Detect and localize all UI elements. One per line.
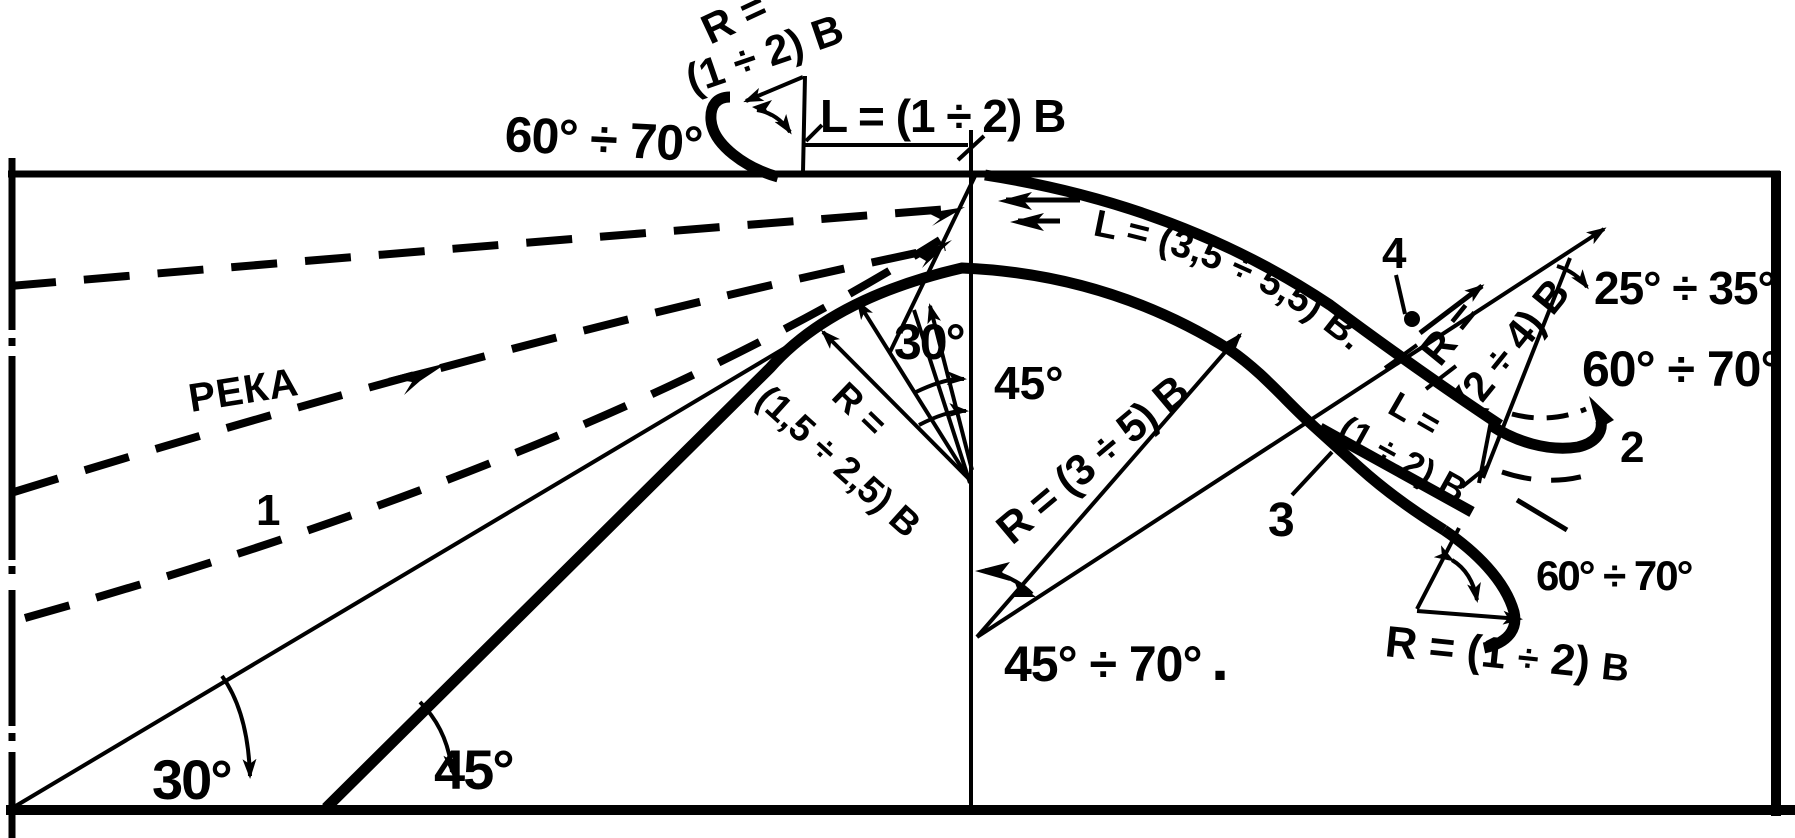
small arrowhead at angle arc start (top triangle) xyxy=(752,100,772,117)
vertex angle arc arrowhead at vertical xyxy=(975,562,1010,581)
steep thin line of 25-35 wedge xyxy=(1483,258,1570,478)
svg-text:L = (1 ÷ 2) В: L = (1 ÷ 2) В xyxy=(820,90,1065,142)
radius arrow 3 of crest curve xyxy=(930,306,972,470)
svg-text:30°: 30° xyxy=(152,748,231,811)
left arrowhead of lower leader dash xyxy=(1010,213,1044,231)
radius arrow 2 of crest curve xyxy=(858,302,970,481)
bottom hook angle arc xyxy=(1452,560,1477,600)
left arrowhead of upper leader dash xyxy=(998,192,1032,210)
angle arc for 30 deg bottom left xyxy=(222,676,250,776)
svg-text:45°: 45° xyxy=(434,738,513,801)
left axis dot 1 xyxy=(9,338,16,346)
vertex angle arc small arrowhead at R1 crossing xyxy=(1010,580,1036,597)
flow line C (lower dashed streamline) xyxy=(25,240,940,618)
leader dash with left arrow (lower, right of vertical) xyxy=(1018,219,1060,224)
thin steep construction line at top center xyxy=(890,172,977,352)
band end slash tick 2 xyxy=(1426,366,1456,389)
flowlines group xyxy=(10,192,1080,618)
dike 4 head hook (center right) xyxy=(1492,421,1601,448)
leader line of label 4 xyxy=(1396,275,1405,314)
leader dot of label 4 xyxy=(1404,311,1420,327)
curved angle arrow lower (45 deg) xyxy=(919,411,966,425)
radius line R2 long diagonal xyxy=(977,229,1604,637)
short flow arrow over band gap xyxy=(1420,286,1482,333)
svg-text:4: 4 xyxy=(1382,229,1407,278)
band lower edge arc (L band right) xyxy=(1320,428,1472,512)
L dimension line at top xyxy=(802,143,968,147)
svg-text:1: 1 xyxy=(256,486,280,535)
leader line of label 3 xyxy=(1292,452,1332,495)
angle arc for 45 deg bottom xyxy=(420,702,452,772)
angle arc at lower vertex xyxy=(985,570,1032,594)
vertical construction line xyxy=(969,130,973,808)
bottom hook wedge baseline with arrow xyxy=(1417,611,1520,619)
svg-text:2: 2 xyxy=(1620,423,1644,472)
band end slash tick 3 xyxy=(1462,466,1488,487)
right border xyxy=(1771,171,1781,816)
flow line A (upper dashed streamline) xyxy=(10,208,962,286)
band end vertical tick xyxy=(1479,416,1492,483)
svg-text:60° ÷ 70°: 60° ÷ 70° xyxy=(1582,341,1779,397)
svg-text:60° ÷ 70°: 60° ÷ 70° xyxy=(1536,552,1692,599)
left axis dot 3 xyxy=(9,733,16,741)
radius arrow 1 of crest curve xyxy=(823,332,968,478)
bank line (top edge of river bank) xyxy=(8,171,1780,178)
dashed angle arc under dike 4 hook xyxy=(1512,409,1586,418)
dike 3 end hook (bottom right) xyxy=(1444,530,1515,648)
leader dash with left arrow (upper, right of vertical) xyxy=(1006,198,1080,203)
svg-text:3: 3 xyxy=(1268,494,1295,547)
curved angle arrow upper (30 deg) xyxy=(916,379,964,392)
bottom hook wedge arm up xyxy=(1417,528,1459,609)
dike 3 main curve (45-deg spur, crest arc, descent) xyxy=(326,268,1444,808)
arrowhead at dike 4 hook end xyxy=(1589,396,1614,429)
flow line B end arrowhead xyxy=(916,240,952,268)
dashed angle arc lower ticks xyxy=(1502,472,1594,480)
thin corner line at 30 deg from bottom-left xyxy=(14,308,852,807)
dike 4 outer curve from bank xyxy=(985,175,1500,425)
bottom border xyxy=(6,805,1795,815)
left axis dot 2 xyxy=(9,566,16,574)
left dash-dot axis xyxy=(9,158,16,838)
diagonal dash tick right xyxy=(1517,500,1567,530)
wedge arm to 30deg (mid construction) xyxy=(914,310,970,483)
thin vertical side of top triangle xyxy=(803,76,805,172)
band end slash tick 1 xyxy=(1385,345,1417,368)
flow line B arrowhead mid xyxy=(388,363,447,395)
svg-text:45° ÷ 70° ■: 45° ÷ 70° ■ xyxy=(1004,636,1225,692)
flow line B (middle dashed streamline, river axis) xyxy=(14,247,945,492)
thin radius arrow of top triangle xyxy=(746,77,803,101)
angle arc for 25-35 deg xyxy=(1557,266,1587,287)
slash tick at left end of L dimension xyxy=(806,125,822,141)
svg-text:30°: 30° xyxy=(894,314,964,370)
flow line A arrowhead xyxy=(928,207,965,226)
svg-text:25° ÷ 35°: 25° ÷ 35° xyxy=(1594,262,1775,314)
svg-text:45°: 45° xyxy=(994,357,1064,409)
svg-text:60° ÷ 70°: 60° ÷ 70° xyxy=(503,106,703,172)
angle arc inside top triangle xyxy=(757,110,790,132)
hook arc of upstream dike root (top detail) xyxy=(711,97,778,177)
slash tick at top of vertical line xyxy=(958,136,984,160)
radius line R1 to dike 3 crest band xyxy=(977,335,1240,637)
structures group xyxy=(14,76,1614,808)
